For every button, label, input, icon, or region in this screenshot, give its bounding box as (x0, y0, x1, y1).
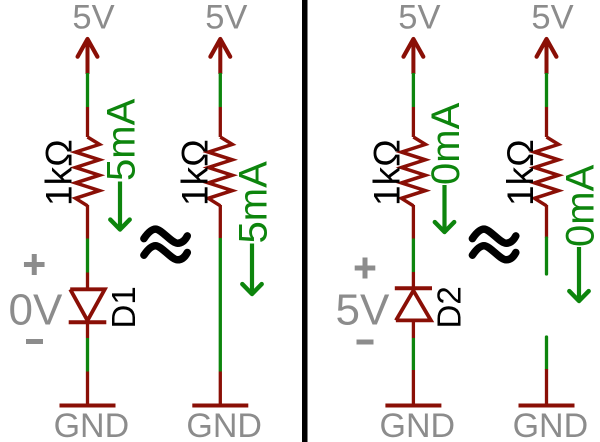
svg-text:1kΩ: 1kΩ (367, 139, 408, 206)
svg-text:GND: GND (186, 407, 262, 442)
svg-text:0mA: 0mA (424, 102, 468, 185)
svg-text:5mA: 5mA (100, 98, 144, 181)
svg-text:5V: 5V (205, 0, 247, 37)
svg-text:0mA: 0mA (559, 164, 600, 247)
svg-text:5V: 5V (72, 0, 114, 37)
svg-text:5V: 5V (336, 286, 390, 335)
svg-text:D1: D1 (105, 286, 142, 328)
svg-text:5V: 5V (398, 0, 440, 37)
svg-text:0V: 0V (9, 286, 63, 335)
svg-text:1kΩ: 1kΩ (39, 139, 80, 206)
svg-text:5mA: 5mA (232, 161, 276, 244)
svg-text:D2: D2 (431, 286, 468, 328)
svg-text:GND: GND (54, 407, 130, 442)
svg-text:GND: GND (380, 407, 456, 442)
svg-text:1kΩ: 1kΩ (175, 139, 216, 206)
svg-text:5V: 5V (531, 0, 573, 37)
svg-text:1kΩ: 1kΩ (500, 139, 541, 206)
svg-text:GND: GND (513, 407, 589, 442)
